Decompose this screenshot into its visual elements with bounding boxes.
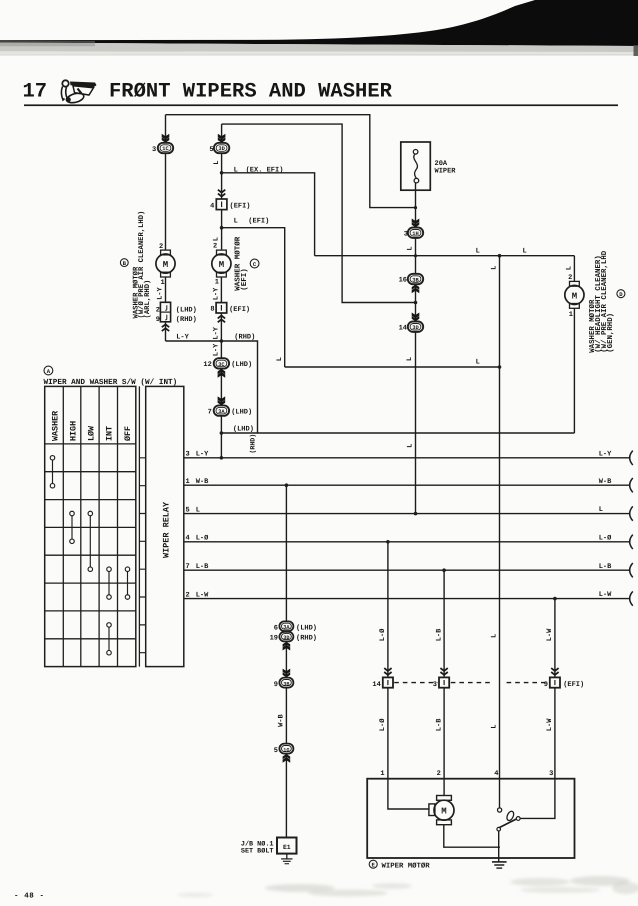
svg-text:3: 3 — [433, 681, 437, 689]
dashed link squares 14-3-9 — [394, 682, 548, 684]
connector arc end L — [630, 506, 633, 520]
wire washer motor D down leg — [573, 256, 575, 433]
wire connector 1C to washer motor B — [165, 153, 167, 250]
svg-text:1: 1 — [380, 770, 384, 778]
wire connector 5 1G to ground E1 — [285, 754, 287, 838]
connector 3 (1C) — [158, 143, 173, 153]
circled D — [617, 290, 625, 299]
connector 9 (3B) — [279, 678, 293, 688]
wiper motor E internal wire terminal4 to park switch contact — [499, 779, 501, 808]
svg-text:1C: 1C — [162, 146, 169, 152]
arrow into connector 7 3A — [218, 396, 226, 405]
wiper relay box — [146, 386, 184, 666]
svg-text:WASHER: WASHER — [50, 410, 60, 441]
circled C — [250, 259, 259, 268]
washer motor D — [565, 281, 584, 308]
wire between 19 arrow and 9 connector — [285, 641, 287, 677]
title wiper icon — [61, 80, 96, 104]
open arrow into connector 8 box from below — [218, 316, 225, 323]
wire L-Y (RHD) horizontal to drop x=257.5 — [166, 341, 258, 433]
svg-text:7L-B: 7L-B — [186, 563, 210, 571]
arrow into connector 1C — [162, 134, 170, 143]
junction x286.4 y485.2 — [285, 483, 289, 487]
wire connector 3D (14) down to bus 5 L — [415, 332, 417, 514]
svg-text:9: 9 — [156, 316, 160, 324]
wire connector 1H to connector 3B — [415, 238, 417, 274]
svg-text:M: M — [572, 291, 577, 301]
arrow into connector 9 3B — [283, 669, 291, 678]
svg-text:M: M — [441, 806, 446, 816]
arrow into connector 1H — [412, 219, 420, 228]
wiper motor E box — [367, 779, 574, 858]
svg-text:ØFF: ØFF — [123, 426, 133, 441]
svg-text:L-Y: L-Y — [176, 334, 189, 342]
svg-text:L: L — [491, 266, 499, 270]
circled E — [369, 860, 377, 869]
svg-text:2: 2 — [437, 770, 441, 778]
svg-text:3: 3 — [152, 146, 156, 154]
svg-text:(RHD): (RHD) — [234, 333, 255, 342]
junction x554.9 y598.6 — [553, 597, 557, 601]
wire drop to connector 1C — [165, 115, 167, 143]
svg-text:16: 16 — [399, 277, 407, 285]
open arrow into square 3 — [440, 668, 447, 675]
wire motor B lower to connector 2/9 — [165, 277, 167, 303]
svg-text:L: L — [234, 218, 238, 226]
open arrow into connector 4 box — [218, 190, 225, 197]
square connector 14 — [383, 677, 393, 687]
svg-text:(LHD): (LHD) — [231, 360, 252, 369]
svg-text:WIPER RELAY: WIPER RELAY — [161, 501, 171, 558]
svg-text:INT: INT — [105, 426, 115, 441]
park switch contact — [498, 808, 502, 812]
wire connector 9 3B to connector 5 1G — [285, 688, 287, 744]
wire L (EFI) branch — [222, 228, 285, 367]
junction x415.5 y513.6 — [414, 512, 418, 516]
junction x221.6 y227.7 — [220, 226, 224, 230]
scan shadow band top — [0, 0, 638, 56]
bus 7 L-B — [184, 569, 631, 571]
wire square 9 to wiper motor terminal 3 — [554, 688, 556, 779]
svg-text:19: 19 — [270, 635, 278, 643]
wire L-O column to square 14 — [387, 542, 389, 678]
arrow into connector 5 3D — [218, 134, 226, 143]
svg-text:2: 2 — [156, 307, 160, 315]
svg-text:L-Y: L-Y — [212, 287, 220, 300]
svg-text:L-W: L-W — [546, 718, 554, 731]
svg-text:L: L — [276, 357, 284, 361]
svg-text:L: L — [407, 444, 415, 448]
bus 5 L — [184, 513, 631, 515]
wire E1 to ground — [286, 854, 288, 859]
svg-text:(EFI): (EFI) — [229, 305, 250, 314]
svg-text:L: L — [407, 246, 415, 250]
svg-text:LØW: LØW — [86, 425, 96, 441]
svg-text:M: M — [163, 260, 168, 270]
wire connector 3D to connector 4 box — [221, 153, 223, 199]
connector arc end L-W — [630, 591, 633, 605]
ground wiper motor — [492, 862, 507, 868]
svg-text:4: 4 — [210, 203, 214, 211]
svg-text:3C: 3C — [218, 362, 225, 368]
svg-text:L-B: L-B — [435, 628, 443, 641]
wire park switch pivot to ground — [498, 831, 500, 862]
connector box 8 [I] (EFI) — [216, 303, 227, 313]
svg-text:(RHD): (RHD) — [249, 434, 256, 454]
svg-text:2: 2 — [213, 242, 217, 250]
svg-text:4: 4 — [494, 770, 498, 778]
wire connector 3A down to relay bus 3 L-Y — [220, 416, 222, 458]
bus 2 L-W — [184, 598, 631, 600]
circled B — [120, 259, 128, 267]
svg-text:3B: 3B — [283, 681, 289, 687]
switch terminal strip ticks — [139, 386, 145, 666]
open arrow into connector 2/9 box from below — [162, 324, 169, 331]
junction x221.4 y433 — [220, 431, 224, 435]
connector arc end L-B — [630, 563, 633, 577]
svg-text:3: 3 — [549, 770, 553, 778]
svg-text:2: 2 — [568, 274, 572, 282]
park switch lever — [499, 819, 516, 828]
wire supply top from node 1C to fuse output — [166, 115, 416, 208]
connector 5 (1G) — [279, 744, 293, 754]
svg-text:L-Ø: L-Ø — [599, 534, 612, 542]
svg-text:1: 1 — [215, 279, 219, 287]
connector 5 (3D) — [214, 143, 229, 153]
svg-text:L-Y: L-Y — [212, 343, 220, 356]
square connector 3 — [439, 677, 449, 687]
svg-text:(LHD): (LHD) — [231, 407, 252, 416]
arrow into connector 19 3D from below — [283, 642, 291, 651]
svg-text:(LHD): (LHD) — [296, 623, 317, 632]
svg-text:14: 14 — [372, 681, 380, 689]
washer motor B — [156, 250, 175, 277]
connector arc end L-Y — [630, 451, 633, 465]
junction x221.6 y172.8 — [220, 171, 224, 175]
svg-text:12: 12 — [203, 361, 211, 369]
svg-text:L-B: L-B — [599, 563, 612, 571]
open arrow into square 9 — [551, 668, 558, 675]
wire below connector 8 to connector 3C — [220, 313, 222, 358]
junction x415.5 y255.7 — [414, 254, 417, 257]
svg-text:L-W: L-W — [546, 628, 554, 641]
open arrow into square 14 — [384, 668, 391, 675]
svg-text:L: L — [523, 247, 527, 255]
svg-text:E1: E1 — [283, 844, 291, 851]
arrow into connector 14 3D — [412, 313, 420, 322]
wire motor C lower to connector 8 box — [220, 277, 222, 303]
bus 3 L-Y — [184, 457, 631, 459]
connector 7 (3A) — [214, 405, 229, 415]
svg-text:FRØNT WIPERS AND WASHER: FRØNT WIPERS AND WASHER — [109, 81, 393, 104]
svg-text:9: 9 — [274, 681, 278, 689]
svg-text:7: 7 — [208, 408, 212, 416]
arrow into connector 16 3B — [412, 285, 420, 294]
junction x499.5 y255.7 — [498, 254, 502, 258]
junction x387.9 y541.8 — [386, 540, 390, 544]
svg-text:L: L — [491, 634, 499, 638]
connector box 4 [I] (EFI) — [216, 199, 227, 210]
wire L column straight to wiper motor terminal 4 — [499, 256, 501, 779]
svg-text:L-Y: L-Y — [599, 450, 612, 458]
svg-text:(GEN,RHD): (GEN,RHD) — [606, 313, 615, 353]
svg-text:3L-Y: 3L-Y — [186, 451, 210, 459]
svg-text:5: 5 — [274, 747, 278, 755]
svg-text:3A: 3A — [283, 625, 290, 631]
wire L-B column to square 3 — [443, 570, 445, 677]
switch contacts LOW — [88, 511, 93, 571]
svg-text:1H: 1H — [412, 231, 418, 237]
svg-text:14: 14 — [399, 324, 407, 332]
junction x499.5 y367 — [498, 365, 502, 369]
svg-text:L-Ø: L-Ø — [379, 718, 387, 731]
svg-text:WIPER: WIPER — [435, 167, 457, 175]
svg-text:6: 6 — [274, 624, 278, 632]
svg-text:L: L — [599, 506, 603, 514]
svg-text:W-B: W-B — [278, 713, 286, 726]
svg-text:L-Y: L-Y — [157, 286, 165, 299]
svg-text:2L-W: 2L-W — [186, 592, 210, 600]
svg-text:(EFI): (EFI) — [230, 202, 251, 211]
svg-text:3: 3 — [404, 230, 408, 238]
svg-text:1: 1 — [569, 311, 573, 319]
svg-text:8: 8 — [210, 306, 214, 314]
svg-text:- 48 -: - 48 - — [14, 892, 45, 901]
svg-text:L: L — [476, 359, 480, 367]
bus 4 L-O — [184, 541, 631, 543]
wire between connector 3C and connector 3A — [220, 369, 222, 406]
svg-text:L: L — [491, 725, 499, 729]
connector arc end L-O — [630, 535, 633, 549]
wire W-B column bus to connectors 6/19 — [285, 485, 287, 621]
junction x221.4 y341 — [220, 339, 224, 343]
wire L bus y=255.7 to washer motor D — [315, 255, 575, 257]
svg-text:HIGH: HIGH — [68, 421, 78, 441]
wire connector 3B junction to connector 3D — [415, 284, 417, 321]
svg-text:1: 1 — [160, 279, 164, 287]
junction x221.4 y457.8 — [220, 456, 224, 460]
fuse 20A WIPER — [401, 142, 431, 190]
wiper motor E internal wire terminal3 to switch — [520, 779, 555, 819]
wire L bus y=367 — [285, 366, 500, 368]
svg-text:L: L — [234, 167, 238, 175]
svg-text:WIPER AND WASHER S/W (W/ INT): WIPER AND WASHER S/W (W/ INT) — [44, 378, 178, 387]
svg-text:2: 2 — [159, 243, 163, 251]
svg-text:3D: 3D — [283, 635, 289, 641]
switch contacts WASHER — [50, 456, 55, 488]
arrow into connector 5 1G from below — [283, 754, 291, 763]
svg-text:(EFI): (EFI) — [240, 268, 249, 291]
svg-text:(EX. EFI): (EX. EFI) — [246, 166, 284, 175]
svg-text:3D: 3D — [412, 325, 419, 331]
wire square 3 to wiper motor terminal 2 — [443, 688, 445, 779]
park switch lever end — [516, 817, 520, 821]
washer motor C — [212, 250, 231, 277]
junction x444.1 y570.2 — [442, 568, 446, 572]
svg-text:(RHD): (RHD) — [176, 315, 197, 324]
svg-text:4L-Ø: 4L-Ø — [186, 535, 210, 543]
switch contacts INT lower — [107, 623, 112, 655]
ground E1 — [281, 859, 292, 864]
arrow into connector 12 3C — [218, 369, 226, 378]
wire L (EX. EFI) branch — [222, 173, 315, 256]
svg-text:W-B: W-B — [599, 478, 612, 486]
svg-text:L: L — [566, 266, 574, 270]
svg-text:3A: 3A — [218, 409, 225, 415]
switch contacts OFF — [125, 567, 130, 599]
wire below connector 2/9 to L-Y RHD line — [165, 322, 167, 341]
svg-text:(LHD): (LHD) — [176, 306, 197, 315]
junction x415.5 y207.6 — [414, 206, 417, 209]
wire (LHD) horizontal y=433 to motor D return — [221, 432, 574, 434]
wiper motor E internal wire motor bottom to ground line — [444, 824, 500, 847]
title underline — [24, 104, 618, 106]
switch contacts HIGH — [70, 511, 75, 543]
connector 3 (1H) — [408, 228, 423, 238]
wire fuse output down to connector 1H — [415, 183, 417, 228]
svg-text:(EFI): (EFI) — [563, 680, 584, 689]
wiper and washer switch table — [45, 386, 136, 666]
circled A — [44, 366, 53, 375]
svg-text:9: 9 — [544, 681, 548, 689]
junction x415.5 y302.5 — [414, 301, 418, 305]
park switch cam follower — [506, 810, 515, 821]
connector 6 (3A) — [279, 621, 293, 631]
svg-text:L-W: L-W — [599, 591, 612, 599]
wiper motor E internal wire terminal2 to motor top — [443, 779, 445, 796]
connector 14 (3D) — [408, 322, 423, 332]
svg-text:L-Y: L-Y — [212, 326, 220, 339]
connector 19 (3D) — [279, 632, 293, 642]
svg-text:3B: 3B — [412, 277, 419, 283]
wire L-W column to square 9 — [554, 599, 556, 678]
junction box E1 — [277, 838, 297, 854]
bottom scan smudges — [177, 876, 638, 898]
svg-text:(RHD): (RHD) — [296, 634, 317, 643]
svg-text:(LHD): (LHD) — [233, 425, 254, 434]
svg-text:L: L — [213, 161, 221, 165]
svg-text:3D: 3D — [218, 146, 225, 152]
svg-text:(ARL,RHD): (ARL,RHD) — [143, 280, 152, 319]
svg-text:(EFI): (EFI) — [248, 217, 269, 226]
svg-text:L-Ø: L-Ø — [379, 628, 387, 641]
wiper motor E internal wire terminal1 to motor — [388, 779, 430, 809]
svg-text:L: L — [213, 237, 221, 241]
svg-text:17: 17 — [23, 81, 48, 104]
wire square 14 to wiper motor terminal 1 — [387, 688, 389, 779]
switch contacts INT upper — [107, 567, 112, 599]
svg-text:SET BØLT: SET BØLT — [241, 847, 274, 855]
connector box 2/9 stacked (LHD)/(RHD) — [160, 302, 170, 322]
bus 1 W-B — [184, 484, 631, 486]
connector 16 (3B) — [408, 274, 423, 284]
connector 12 (3C) — [214, 358, 229, 368]
svg-text:M: M — [219, 260, 224, 270]
title — [23, 81, 393, 104]
square connector 9 EFI — [550, 677, 560, 687]
svg-text:L-B: L-B — [435, 718, 443, 731]
svg-text:L: L — [406, 357, 414, 361]
svg-text:1G: 1G — [283, 747, 289, 753]
svg-text:L: L — [476, 247, 480, 255]
wire connector 4 box to washer motor C — [221, 210, 223, 250]
svg-text:1W-B: 1W-B — [186, 478, 210, 486]
wiper motor E motor — [429, 796, 454, 825]
connector arc end W-B — [630, 478, 633, 492]
park switch pivot — [497, 827, 501, 831]
svg-text:5: 5 — [209, 146, 213, 154]
wire drop to connector 3D top — [221, 124, 223, 143]
svg-text:WIPER MØTØR: WIPER MØTØR — [382, 862, 431, 870]
wire supply top from node 3D to junction between 3B and 3D — [222, 124, 416, 302]
